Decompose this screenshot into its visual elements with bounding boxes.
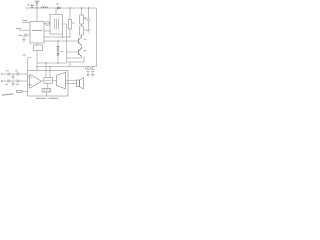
wire right rail (96, 8, 98, 67)
diode D4 (57, 53, 59, 63)
node C9 tap (87, 66, 88, 67)
node supply left (36, 66, 37, 67)
wire Q1 emitter to Q2 collector (81, 45, 83, 48)
node detector top (57, 40, 58, 41)
node pot label (22, 54, 26, 56)
wire detector feed (57, 41, 59, 46)
node R2 label (84, 18, 86, 20)
node rail left terminal (26, 7, 28, 9)
wire M1 to bias block (47, 83, 49, 88)
IC U1 (30, 22, 44, 44)
ground (C10) (91, 75, 94, 77)
node vcc tap (45, 62, 46, 63)
capacitor C4 (84, 8, 90, 30)
wire Q2 emitter to bus (81, 56, 83, 58)
node input B terminal (0, 80, 2, 82)
wire stage box right (83, 56, 85, 62)
transistor Q1 (78, 36, 82, 45)
node Q1 label (84, 38, 87, 40)
wire opamp to driver (42, 80, 45, 81)
wire emitter bus (67, 57, 82, 59)
transistor Q2 (78, 48, 82, 57)
resistor R3 (80, 24, 84, 37)
node Q2 label (84, 50, 87, 52)
wire IC to crystal (36, 43, 38, 45)
node amp caption 2 (49, 97, 59, 99)
wire amp gnd terminal (49, 67, 51, 78)
node rail x70 (69, 7, 70, 8)
wire trimmer to tank (49, 23, 52, 25)
resistor M2 block (42, 89, 51, 93)
capacitor C5 (6, 71, 10, 76)
node rail x81 (81, 7, 82, 8)
node bottom label (2, 94, 14, 95)
diode D2 (57, 46, 59, 48)
node label C8 (16, 83, 19, 85)
ground (C9) (86, 75, 89, 77)
driver module M1 (44, 78, 53, 84)
wire IC pin to tank lower (44, 30, 50, 32)
diode D3 (57, 50, 63, 52)
transformer T1 tank box (50, 15, 63, 35)
node R1 label (72, 22, 74, 24)
resistor R1 (69, 8, 72, 37)
crystal X1 (34, 45, 43, 51)
wire Q2 base (67, 51, 79, 53)
node rail x88 (88, 7, 89, 8)
wire output to speaker top (66, 80, 77, 82)
capacitor C3 (19, 33, 27, 39)
node C10 tap (92, 66, 93, 67)
wire IC pin to C3 (27, 34, 30, 36)
ground (input B) (11, 81, 15, 86)
node R3 label (84, 29, 86, 31)
wire stage box bottom (67, 61, 85, 63)
diode D1 (56, 4, 61, 9)
output stage trapezoid (57, 72, 66, 89)
node amp caption (36, 97, 46, 99)
ground (C3) (22, 40, 26, 42)
ground (top, battery minus) (35, 1, 40, 8)
amplifier module box (28, 71, 69, 97)
node ANT label (22, 20, 27, 22)
capacitor VC1 trimmer (46, 22, 50, 26)
wire rail to tank box (55, 8, 57, 15)
wire stage to supply (69, 62, 71, 67)
resistor R2 (80, 8, 84, 24)
capacitor C9 (85, 67, 90, 75)
wire amp vcc terminal (45, 63, 47, 78)
wire IC pin to bus y37 (44, 36, 70, 38)
wire crystal feed down (36, 51, 38, 71)
wire supply bus y67 (37, 66, 97, 68)
node label C7 (5, 83, 8, 85)
wire IC pin to transistor base (44, 40, 78, 42)
wire pot stub (28, 57, 32, 59)
node input A terminal (0, 73, 2, 75)
capacitor C1 (28, 4, 34, 8)
wire tank to mid bus (62, 34, 64, 37)
capacitor C6 (15, 71, 18, 76)
capacitor C7 (8, 79, 9, 82)
wire mid bus y63 (37, 62, 67, 64)
wire stage left rail (66, 24, 68, 62)
speaker LS1 (77, 78, 84, 90)
node AGC label (16, 27, 22, 29)
wire IC pin4 to trimmer (44, 23, 46, 25)
wire IC pin AGC (19, 29, 30, 31)
wire antenna input (22, 22, 30, 24)
capacitor C8 (17, 79, 18, 82)
wire input A (1, 73, 28, 75)
wire top rail (27, 7, 97, 9)
wire M2 to box bottom (45, 92, 47, 96)
node gnd tap (49, 66, 50, 67)
node diode bus (57, 62, 58, 63)
wire pot down (27, 58, 29, 71)
wire input B (1, 80, 28, 82)
resistor R4 (16, 90, 27, 92)
node battery-rail junction (36, 7, 37, 8)
node R1 bus (69, 36, 70, 37)
op-amp U2 (28, 74, 42, 88)
inductor L1 (41, 7, 48, 8)
node bus junction (62, 36, 63, 37)
ground (input A) (11, 74, 15, 79)
wire M1 to output stage (53, 79, 57, 81)
wire tank to stage rail (63, 23, 67, 25)
wire output to speaker bottom (66, 83, 77, 85)
capacitor C10 (90, 67, 94, 75)
ground (C4) (87, 30, 91, 32)
wire rail to IC (36, 8, 38, 22)
